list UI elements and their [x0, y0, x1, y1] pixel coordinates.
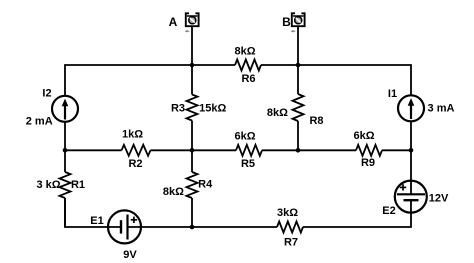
svg-text:I1: I1	[388, 88, 397, 100]
svg-text:12V: 12V	[429, 193, 449, 205]
svg-text:R5: R5	[241, 158, 255, 170]
wire terminal A stub	[191, 26, 193, 65]
svg-text:R4: R4	[198, 179, 213, 191]
resistor R6	[235, 60, 261, 71]
terminal A	[186, 13, 199, 26]
wire A column below R3	[191, 121, 193, 151]
wire E2 to bottom right corner	[303, 200, 411, 227]
wire top-left segment (left column top corner to R6)	[65, 65, 235, 96]
resistor R5	[236, 145, 262, 156]
wire B column above R8	[297, 65, 299, 94]
voltage source E1	[108, 210, 141, 243]
svg-text:3 kΩ: 3 kΩ	[36, 179, 60, 191]
wire top-right segment (R6 to right column top corner)	[261, 65, 411, 96]
svg-text:R1: R1	[71, 179, 85, 191]
wire row2 right	[382, 149, 411, 151]
node junction row2 right column	[409, 148, 414, 153]
svg-text:R3: R3	[171, 102, 185, 114]
svg-text:8kΩ: 8kΩ	[163, 186, 184, 198]
wire left column below R1	[64, 198, 66, 227]
node junction bottom A column	[190, 225, 195, 230]
plus sign of E1	[131, 217, 137, 223]
current source I2	[52, 96, 78, 122]
node junction at A top	[190, 63, 195, 68]
wire A column below R4	[191, 198, 193, 227]
node junction row2 B column	[296, 148, 301, 153]
wire row2 left	[65, 149, 122, 151]
svg-text:9V: 9V	[123, 249, 137, 261]
svg-text:6kΩ: 6kΩ	[353, 130, 374, 142]
svg-text:I2: I2	[42, 88, 51, 100]
node junction row2 left column	[63, 148, 68, 153]
svg-text:1kΩ: 1kΩ	[122, 129, 143, 141]
wire bottom middle (R7 to E1)	[128, 226, 278, 228]
wire bottom left (E1 to left column corner)	[65, 198, 121, 227]
svg-text:E2: E2	[382, 205, 395, 217]
terminal A small arrow	[185, 30, 190, 33]
wire right column to E2	[410, 150, 412, 194]
wire row2 R5 to R9	[262, 149, 356, 151]
resistor R8	[293, 94, 304, 121]
resistor R7	[277, 222, 303, 233]
svg-text:A: A	[169, 15, 178, 29]
svg-text:B: B	[282, 15, 291, 29]
svg-text:R7: R7	[284, 237, 298, 249]
node junction row2 A column	[190, 148, 195, 153]
svg-text:2 mA: 2 mA	[26, 116, 53, 128]
wire terminal B stub	[297, 26, 299, 65]
wire B column below R8	[297, 121, 299, 150]
wire left column above R1	[64, 150, 66, 172]
resistor R1	[60, 172, 71, 198]
wire A column above R4	[191, 150, 193, 172]
wire A column above R3	[191, 65, 193, 95]
resistor R4	[187, 172, 198, 198]
svg-text:R8: R8	[309, 115, 323, 127]
svg-text:R6: R6	[241, 73, 255, 85]
svg-text:15kΩ: 15kΩ	[199, 102, 226, 114]
svg-text:3 mA: 3 mA	[428, 103, 455, 115]
wire left column middle	[64, 122, 66, 151]
plus sign of E2	[400, 184, 406, 190]
svg-text:6kΩ: 6kΩ	[234, 131, 255, 143]
node junction at B top	[296, 63, 301, 68]
current source I1	[398, 95, 424, 121]
resistor R2	[122, 145, 151, 156]
resistor R9	[356, 145, 382, 156]
svg-text:8kΩ: 8kΩ	[267, 107, 288, 119]
wire right column middle	[410, 121, 412, 150]
terminal B small arrow	[291, 30, 296, 33]
wire row2 R2 to A column	[151, 149, 237, 151]
svg-text:R9: R9	[361, 157, 375, 169]
voltage source E2	[395, 181, 427, 213]
svg-text:8kΩ: 8kΩ	[234, 46, 255, 58]
terminal B	[292, 13, 305, 26]
svg-text:E1: E1	[90, 215, 103, 227]
resistor R3	[187, 95, 198, 121]
svg-text:R2: R2	[128, 158, 142, 170]
svg-text:3kΩ: 3kΩ	[277, 207, 298, 219]
